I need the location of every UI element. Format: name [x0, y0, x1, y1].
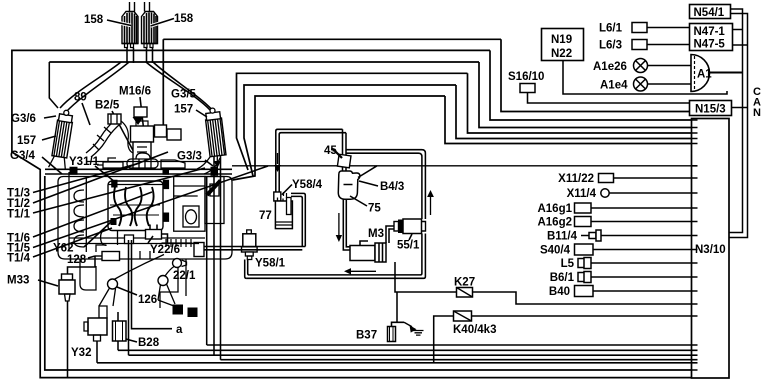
wire coil stubs [127, 48, 153, 63]
wire bundle drop x467 [468, 73, 692, 133]
cable guides 126 [99, 255, 175, 307]
svg-text:K27: K27 [454, 277, 475, 289]
svg-text:a: a [176, 324, 183, 336]
engine lower legs [80, 259, 198, 317]
wire Y32 down [96, 341, 98, 363]
solenoid valve Y32 [84, 306, 107, 341]
sensor A16g1 [537, 203, 691, 215]
junction box on coil wire [155, 125, 167, 137]
instrument cluster A1 [691, 55, 712, 92]
fuel tank B4/3 [338, 171, 360, 199]
wire bundle drop x501 to N15/3 [501, 39, 690, 111]
charcoal canister 77 [275, 198, 292, 229]
wire bundle drop x445 [445, 96, 692, 144]
air pump M33 [59, 274, 75, 301]
N3/10 pin stubs [692, 120, 698, 370]
wire M33 down [67, 301, 69, 378]
switch S16/10 [508, 71, 690, 103]
svg-text:Y58/1: Y58/1 [255, 258, 286, 270]
connector X11/4 [567, 188, 692, 200]
hose vent valve down to bottom loop [245, 260, 250, 279]
wire a [132, 240, 173, 329]
svg-text:A1: A1 [697, 69, 712, 81]
O2 sensor G3/6 [49, 109, 75, 170]
svg-text:M16/6: M16/6 [119, 86, 151, 98]
wire K27 to N3/10 [473, 292, 692, 304]
wire N19 to A1 [563, 61, 727, 95]
module N15/3 [690, 101, 732, 116]
svg-text:N19: N19 [551, 34, 572, 46]
wire evap frame left verticals [207, 134, 221, 360]
hose purge top from canister [276, 129, 346, 192]
svg-text:A16g1: A16g1 [537, 203, 572, 215]
wire bottom bus 5 [97, 362, 692, 364]
bolt 22/1 [173, 259, 187, 268]
wire B37 up to pump wire [396, 292, 398, 322]
hose bottom loop [246, 234, 425, 279]
arrow down purge [274, 155, 281, 172]
wire B28 down [117, 341, 119, 350]
svg-text:G3/3: G3/3 [177, 151, 202, 163]
purge valve Y58/4 [274, 192, 287, 201]
small box on wire pair [125, 235, 134, 244]
wire funnel left [66, 62, 129, 112]
svg-text:B6/1: B6/1 [550, 272, 575, 284]
svg-text:S40/4: S40/4 [540, 245, 571, 257]
relay K27 [457, 288, 473, 298]
engine block outline [58, 177, 232, 260]
svg-text:X11/4: X11/4 [567, 188, 597, 200]
connector L6/1 [599, 23, 690, 35]
vent valve Y58/1 [242, 230, 258, 260]
svg-text:A1e4: A1e4 [600, 80, 628, 92]
solenoid 128 [95, 252, 120, 261]
throttle body M16/6 [131, 107, 154, 161]
svg-text:T1/1: T1/1 [7, 209, 31, 221]
svg-text:B28: B28 [138, 337, 160, 349]
exhaust pipe right sensor [197, 157, 220, 174]
rail end blocks [70, 167, 219, 176]
sensor B37 [356, 322, 404, 341]
wire x128 down [128, 240, 130, 355]
wire outer loop left [12, 50, 729, 377]
O2 sensor G3/5 [204, 107, 226, 157]
label CAN [753, 86, 761, 119]
arrow left bottom loop [344, 268, 374, 274]
svg-text:Y32: Y32 [71, 347, 91, 359]
module N47-1 N47-5 [690, 24, 733, 51]
wire y85 from engine [244, 85, 456, 176]
relay K40/4k3 [454, 311, 472, 321]
svg-text:158: 158 [174, 13, 194, 25]
svg-text:Y58/4: Y58/4 [292, 179, 323, 191]
arrow down engine-evap [214, 137, 221, 169]
sensor B11/4 [547, 230, 692, 243]
wire K40 left [434, 316, 454, 363]
wire bundle drop x479 [479, 62, 692, 128]
svg-text:B2/5: B2/5 [95, 100, 120, 112]
svg-text:22/1: 22/1 [173, 270, 196, 282]
svg-text:55/1: 55/1 [397, 240, 420, 252]
svg-text:157: 157 [17, 135, 36, 147]
hose 45 drop to tank [343, 129, 347, 171]
hose canister to loop [291, 193, 305, 246]
pressure sensor B28 [113, 312, 127, 341]
ignition coil 158 left [122, 2, 138, 48]
engine right section [174, 177, 205, 232]
module N19 N22 [542, 29, 584, 61]
arrow up right loop [427, 190, 434, 215]
intake tube assembly [97, 153, 185, 168]
hose pump to filter [386, 226, 394, 243]
svg-text:B40: B40 [549, 286, 570, 298]
wire long B4/3 line y165.8 [232, 165, 692, 167]
svg-text:128: 128 [67, 254, 87, 266]
svg-text:45: 45 [324, 145, 337, 157]
wire tent top y62 [49, 61, 479, 63]
svg-text:N47-5: N47-5 [694, 39, 726, 51]
wire y73 from engine [237, 73, 468, 170]
hose loop top right [346, 150, 425, 219]
svg-text:A1e26: A1e26 [593, 61, 627, 73]
svg-text:S16/10: S16/10 [508, 71, 544, 83]
svg-text:G3/4: G3/4 [10, 150, 36, 162]
arrow down tank [336, 213, 342, 242]
switch S40/4 [540, 244, 692, 257]
hose tank down to pump [343, 199, 350, 250]
engine rail lines [45, 169, 232, 174]
svg-text:L6/3: L6/3 [599, 40, 622, 52]
lamp A1e26 [593, 59, 691, 74]
sensor B40 [549, 286, 692, 299]
svg-text:A16g2: A16g2 [537, 217, 572, 229]
svg-text:T1/4: T1/4 [7, 253, 31, 265]
wire bottom bus 2 [118, 349, 692, 351]
sensor L5 [561, 258, 692, 271]
belt slash [207, 181, 221, 196]
intake manifold [108, 181, 163, 231]
wire tent left side [49, 62, 58, 108]
valve 45 [332, 148, 351, 168]
engine deck line [86, 161, 208, 163]
svg-text:158: 158 [84, 14, 104, 26]
svg-text:B4/3: B4/3 [380, 181, 404, 193]
svg-text:89: 89 [74, 92, 87, 104]
lamp A1e4 [600, 77, 691, 92]
svg-text:N54/1: N54/1 [694, 7, 725, 19]
engine far right column [205, 177, 224, 224]
throttle actuator arrow M16/6 [133, 108, 144, 125]
hose vent valve to engine [204, 247, 305, 250]
EGR valve Y31/1 pipe [86, 114, 133, 157]
svg-text:G3/6: G3/6 [11, 113, 36, 125]
svg-text:157: 157 [174, 104, 193, 116]
svg-text:Y22/6: Y22/6 [150, 244, 180, 256]
svg-text:X11/22: X11/22 [558, 173, 594, 185]
vacuum port box [194, 243, 204, 257]
wire K40 to N3/10 [472, 315, 692, 317]
ground at B37 [404, 322, 424, 335]
wire inner frame left [45, 176, 692, 370]
wire B4/3 tap [358, 166, 377, 178]
connector X11/22 [558, 173, 691, 185]
svg-text:N3/10: N3/10 [695, 244, 726, 256]
ECU N3/10 [692, 119, 730, 379]
injector Y62 [111, 218, 117, 225]
wire bottom bus 4 [221, 359, 692, 361]
cylinder head left column [69, 172, 86, 252]
svg-text:N15/3: N15/3 [695, 104, 726, 116]
svg-text:G3/5: G3/5 [171, 89, 197, 101]
ignition coil 158 right [142, 2, 158, 48]
wire bundle drop x456 [456, 85, 692, 139]
wire bottom bus 1 evap frame bottom [207, 344, 692, 346]
wire y96 from engine [233, 96, 446, 180]
svg-text:N: N [753, 107, 761, 119]
aux box right of throttle [167, 129, 181, 140]
wire coil drop x163 [162, 39, 164, 125]
svg-text:K40/4k3: K40/4k3 [453, 324, 496, 336]
fuel filter 55/1 [394, 219, 426, 234]
engine lower band [69, 230, 205, 259]
wire pump to relay K27 [395, 262, 457, 292]
wire 128 to M33 [68, 256, 96, 274]
wire bundle drop x490 [490, 50, 692, 120]
svg-text:126: 126 [138, 294, 157, 306]
svg-text:M3: M3 [368, 228, 384, 240]
wire top bus y39 [163, 38, 501, 40]
sensor A16g2 [537, 217, 691, 229]
CAN bus lines [710, 9, 748, 238]
connector L6/3 [599, 40, 690, 52]
svg-text:L6/1: L6/1 [599, 23, 623, 35]
manifold black flanges [111, 180, 169, 222]
module N54/1 [690, 5, 731, 20]
svg-text:B11/4: B11/4 [547, 231, 578, 243]
svg-text:L5: L5 [561, 258, 575, 270]
svg-text:Y62: Y62 [53, 243, 73, 255]
sensor B6/1 [550, 272, 692, 285]
svg-text:N22: N22 [551, 48, 572, 60]
svg-text:77: 77 [259, 210, 272, 222]
svg-text:75: 75 [368, 203, 381, 215]
fuel pump M3 [350, 241, 386, 262]
svg-text:M33: M33 [7, 275, 29, 287]
svg-text:B37: B37 [356, 330, 377, 342]
valve unit Y22/6 [146, 225, 193, 248]
wire funnel right [146, 62, 210, 110]
wire bottom bus 3 [129, 354, 692, 356]
svg-text:N47-1: N47-1 [694, 26, 726, 38]
